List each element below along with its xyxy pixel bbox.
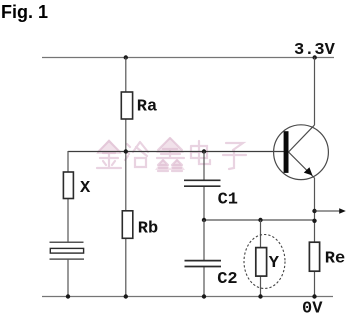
- capacitor C1: [184, 180, 221, 186]
- char xin: [157, 138, 184, 171]
- label X: [80, 179, 91, 198]
- watermark: [96, 137, 185, 170]
- svg-text:Y: Y: [269, 254, 280, 273]
- label Ra: [137, 98, 157, 117]
- wire Y branch vertical: [260, 220, 262, 297]
- resistor Ra: [121, 92, 132, 119]
- crystal Y1 body: [50, 248, 83, 253]
- wire top supply rail: [42, 57, 334, 59]
- label figure title Fig. 1: [1, 2, 48, 22]
- label 3.3V: [294, 41, 336, 60]
- char jin: [97, 141, 121, 168]
- label Y: [269, 254, 280, 273]
- svg-text:X: X: [80, 179, 91, 198]
- resistor Re: [309, 242, 319, 271]
- wire C2 branch vertical: [203, 220, 205, 297]
- label C2: [217, 270, 237, 289]
- transistor Q1 collector stroke: [289, 125, 315, 152]
- node junction emitter / midnode wire: [312, 219, 316, 223]
- char dian: [191, 141, 210, 164]
- svg-text:Re: Re: [325, 250, 345, 269]
- svg-text:3.3V: 3.3V: [294, 41, 336, 60]
- resistor Y: [256, 248, 267, 277]
- label 0V: [302, 300, 323, 315]
- node junction midnode Y tap: [258, 218, 262, 222]
- wire Ra-Rb column vertical: [125, 58, 127, 297]
- node junction ground / Re: [312, 294, 316, 298]
- node junction top rail / Ra column: [124, 55, 128, 59]
- wire crystal to ground: [67, 259, 69, 296]
- label Re: [325, 250, 345, 269]
- svg-text:C1: C1: [218, 191, 238, 210]
- transistor Q1 emitter stroke: [289, 152, 315, 178]
- transistor Q1 emitter arrow: [304, 167, 313, 175]
- transistor Q1 body circle: [274, 125, 329, 180]
- node junction ground / C2: [202, 294, 206, 298]
- node junction ground / crystal: [66, 294, 70, 298]
- wire emitter vertical: [314, 178, 316, 297]
- crystal Y1 bottom plate: [50, 258, 85, 260]
- svg-text:Ra: Ra: [137, 98, 157, 117]
- crystal Y1 top plate: [50, 241, 84, 243]
- transistor Q1 base bar: [284, 131, 289, 173]
- wire bottom ground rail: [42, 296, 333, 298]
- node junction ground / Rb: [124, 294, 128, 298]
- wire output arrow: [315, 208, 346, 213]
- label C1: [218, 191, 238, 210]
- svg-text:Fig. 1: Fig. 1: [1, 2, 48, 22]
- node junction emitter output tap: [312, 209, 316, 213]
- char zi: [223, 143, 246, 169]
- svg-text:C2: C2: [217, 270, 237, 289]
- char luo: [125, 142, 148, 167]
- resistor X: [63, 172, 73, 199]
- label Rb: [138, 220, 158, 239]
- capacitor C2: [185, 261, 222, 267]
- svg-text:Rb: Rb: [138, 220, 158, 239]
- wire C1-C2 midnode to emitter column: [204, 219, 315, 221]
- node junction ground / Y: [258, 294, 262, 298]
- resistor Rb: [122, 211, 133, 239]
- node junction midnode C1-C2: [202, 218, 206, 222]
- wire C1 branch vertical: [203, 152, 205, 221]
- node junction base wire / C1 tap: [202, 149, 206, 153]
- node junction base wire / Ra-Rb column: [124, 149, 128, 153]
- wire base net horizontal: [68, 151, 284, 153]
- node junction top rail / collector 3.3V: [313, 55, 317, 59]
- wire collector vertical: [314, 58, 316, 126]
- svg-text:0V: 0V: [302, 300, 323, 315]
- wire X branch vertical: [67, 151, 69, 242]
- component Y dashed ellipse: [244, 235, 285, 289]
